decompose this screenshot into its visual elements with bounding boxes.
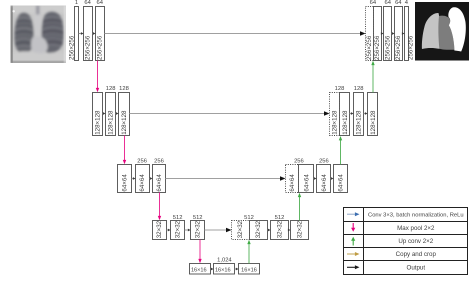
svg-text:256: 256 bbox=[294, 159, 304, 165]
svg-text:128×128: 128×128 bbox=[370, 110, 377, 135]
svg-text:32×32: 32×32 bbox=[195, 220, 202, 238]
svg-text:64×64: 64×64 bbox=[304, 174, 311, 192]
svg-text:1,024: 1,024 bbox=[217, 258, 232, 264]
svg-text:16×16: 16×16 bbox=[241, 267, 257, 273]
svg-text:1: 1 bbox=[75, 0, 78, 6]
svg-text:128×128: 128×128 bbox=[332, 110, 339, 135]
svg-text:512: 512 bbox=[193, 215, 203, 221]
svg-text:Max pool 2×2: Max pool 2×2 bbox=[397, 225, 435, 232]
svg-text:Copy and crop: Copy and crop bbox=[396, 251, 437, 258]
svg-text:128×128: 128×128 bbox=[94, 110, 101, 135]
svg-text:64: 64 bbox=[84, 0, 91, 6]
svg-text:64×64: 64×64 bbox=[321, 174, 328, 192]
svg-text:256: 256 bbox=[319, 159, 329, 165]
svg-text:512: 512 bbox=[244, 215, 254, 221]
svg-text:512: 512 bbox=[275, 215, 285, 221]
svg-text:128×128: 128×128 bbox=[108, 110, 115, 135]
svg-text:64: 64 bbox=[370, 0, 377, 6]
svg-text:256×256: 256×256 bbox=[385, 35, 392, 60]
svg-text:128×128: 128×128 bbox=[121, 110, 128, 135]
svg-text:64: 64 bbox=[96, 0, 103, 6]
svg-text:64: 64 bbox=[384, 0, 391, 6]
svg-text:128×128: 128×128 bbox=[356, 110, 363, 135]
svg-text:32×32: 32×32 bbox=[255, 220, 262, 238]
svg-text:Up conv 2×2: Up conv 2×2 bbox=[398, 238, 433, 245]
svg-text:64×64: 64×64 bbox=[289, 174, 296, 192]
svg-text:64×64: 64×64 bbox=[338, 174, 345, 192]
svg-text:128: 128 bbox=[354, 86, 364, 92]
svg-text:128×128: 128×128 bbox=[342, 110, 349, 135]
svg-text:256×256: 256×256 bbox=[84, 35, 91, 60]
svg-text:256×256: 256×256 bbox=[374, 35, 381, 60]
svg-text:Conv 3×3, batch normalization,: Conv 3×3, batch normalization, ReLu bbox=[368, 213, 464, 219]
svg-text:16×16: 16×16 bbox=[215, 267, 231, 273]
svg-text:256: 256 bbox=[154, 159, 164, 165]
svg-text:64: 64 bbox=[395, 0, 402, 6]
svg-text:32×32: 32×32 bbox=[175, 220, 182, 238]
svg-text:Output: Output bbox=[407, 265, 426, 272]
svg-text:256×256: 256×256 bbox=[97, 35, 104, 60]
svg-text:16×16: 16×16 bbox=[191, 267, 207, 273]
svg-text:512: 512 bbox=[173, 215, 183, 221]
svg-text:64×64: 64×64 bbox=[139, 174, 146, 192]
svg-text:256: 256 bbox=[137, 159, 147, 165]
svg-text:4: 4 bbox=[405, 0, 409, 6]
svg-text:128: 128 bbox=[335, 86, 345, 92]
svg-text:32×32: 32×32 bbox=[156, 220, 163, 238]
svg-text:256×256: 256×256 bbox=[408, 35, 415, 60]
svg-text:32×32: 32×32 bbox=[296, 220, 303, 238]
svg-text:32×32: 32×32 bbox=[276, 220, 283, 238]
svg-text:32×32: 32×32 bbox=[237, 220, 244, 238]
svg-text:128: 128 bbox=[106, 86, 116, 92]
svg-text:128: 128 bbox=[119, 86, 129, 92]
svg-text:256×256: 256×256 bbox=[366, 35, 373, 60]
svg-text:64×64: 64×64 bbox=[156, 174, 163, 192]
svg-text:256×256: 256×256 bbox=[68, 35, 75, 60]
svg-text:256×256: 256×256 bbox=[395, 35, 402, 60]
svg-text:64×64: 64×64 bbox=[122, 174, 129, 192]
